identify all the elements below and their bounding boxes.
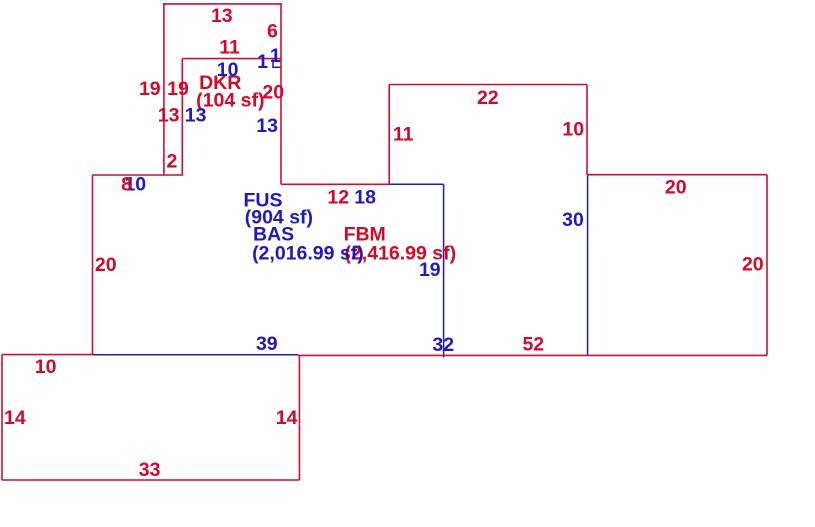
svg-text:13: 13 (158, 105, 180, 127)
svg-text:33: 33 (139, 459, 161, 481)
svg-text:19: 19 (419, 259, 441, 281)
svg-text:12: 12 (327, 186, 349, 208)
svg-text:22: 22 (477, 87, 499, 109)
svg-text:10: 10 (217, 59, 239, 81)
svg-text:20: 20 (262, 82, 284, 104)
svg-text:39: 39 (256, 333, 278, 355)
svg-text:(2,016.99 sf): (2,016.99 sf) (252, 243, 364, 265)
svg-text:13: 13 (256, 115, 278, 137)
svg-text:8: 8 (121, 174, 132, 196)
svg-text:30: 30 (562, 209, 584, 231)
svg-text:14: 14 (4, 407, 26, 429)
svg-text:14: 14 (276, 407, 298, 429)
svg-text:10: 10 (562, 119, 584, 141)
svg-text:10: 10 (35, 356, 57, 378)
svg-text:20: 20 (665, 177, 687, 199)
svg-text:13: 13 (211, 5, 233, 27)
svg-text:11: 11 (393, 124, 414, 146)
svg-text:52: 52 (522, 333, 544, 355)
svg-text:1: 1 (270, 45, 281, 67)
svg-text:13: 13 (185, 105, 207, 127)
svg-text:32: 32 (432, 334, 454, 356)
svg-text:2: 2 (166, 151, 177, 173)
svg-text:20: 20 (95, 254, 117, 276)
svg-text:1: 1 (257, 51, 268, 73)
svg-text:19: 19 (139, 78, 161, 100)
svg-text:6: 6 (267, 21, 278, 43)
svg-text:20: 20 (742, 254, 764, 276)
svg-text:19: 19 (167, 78, 189, 100)
svg-text:11: 11 (219, 36, 240, 58)
svg-text:18: 18 (354, 186, 376, 208)
